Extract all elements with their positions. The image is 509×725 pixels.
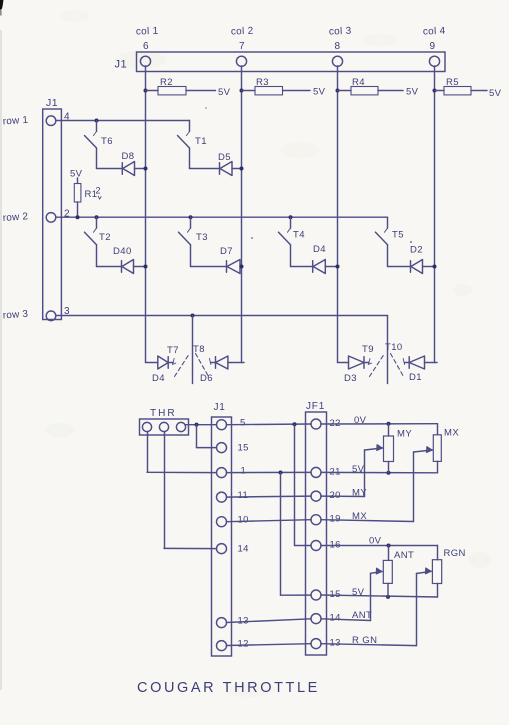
svg-text:col 1: col 1 [136, 26, 159, 38]
svg-text:row 2: row 2 [2, 211, 28, 224]
svg-text:T8: T8 [193, 344, 205, 355]
svg-text:R5: R5 [446, 77, 459, 88]
svg-text:col 4: col 4 [423, 26, 446, 38]
svg-text:8: 8 [335, 41, 341, 52]
svg-text:R2: R2 [160, 77, 173, 88]
svg-text:MY: MY [397, 429, 412, 440]
svg-text:MX: MX [444, 428, 459, 439]
svg-text:J1: J1 [46, 97, 58, 109]
svg-text:14: 14 [238, 544, 249, 555]
svg-text:JF1: JF1 [306, 401, 325, 412]
svg-text:5V: 5V [352, 464, 365, 475]
svg-text:9: 9 [430, 41, 436, 52]
svg-text:T2: T2 [99, 232, 111, 243]
svg-text:5V: 5V [70, 169, 83, 180]
svg-text:RGN: RGN [444, 548, 466, 559]
svg-text:D8: D8 [122, 151, 135, 162]
svg-text:D4: D4 [313, 244, 326, 255]
svg-text:T5: T5 [392, 230, 404, 241]
svg-text:T4: T4 [293, 230, 305, 241]
svg-text:row 3: row 3 [2, 309, 28, 322]
svg-text:ANT: ANT [394, 550, 414, 561]
svg-text:7: 7 [239, 41, 245, 52]
svg-text:T1: T1 [195, 136, 207, 147]
svg-text:T9: T9 [362, 344, 374, 355]
svg-text:5V: 5V [406, 87, 419, 98]
svg-text:5V: 5V [218, 87, 231, 98]
svg-text:D1: D1 [409, 372, 422, 383]
svg-text:D40: D40 [113, 246, 132, 257]
svg-text:row 1: row 1 [2, 115, 28, 128]
svg-text:D6: D6 [200, 373, 213, 384]
svg-text:D7: D7 [220, 246, 233, 257]
svg-text:col 2: col 2 [231, 26, 254, 38]
svg-text:6: 6 [143, 41, 149, 52]
svg-text:R4: R4 [352, 77, 365, 88]
svg-text:11: 11 [238, 490, 249, 501]
svg-text:2: 2 [96, 186, 101, 196]
svg-text:T3: T3 [196, 232, 208, 243]
svg-text:5V: 5V [313, 87, 326, 98]
svg-text:10: 10 [238, 515, 249, 526]
svg-text:15: 15 [238, 443, 249, 454]
svg-text:14: 14 [330, 613, 341, 624]
svg-text:col 3: col 3 [329, 26, 352, 38]
svg-text:D2: D2 [410, 245, 423, 256]
svg-text:R3: R3 [256, 77, 269, 88]
svg-text:12: 12 [238, 639, 249, 650]
svg-text:T10: T10 [385, 342, 403, 353]
svg-text:1: 1 [241, 466, 247, 477]
svg-text:D4: D4 [152, 373, 165, 384]
svg-text:T6: T6 [101, 136, 113, 147]
svg-text:5V: 5V [489, 88, 502, 99]
svg-text:J1: J1 [214, 402, 226, 413]
svg-text:T7: T7 [167, 345, 179, 356]
svg-text:D3: D3 [344, 373, 357, 384]
svg-text:COUGAR THROTTLE: COUGAR THROTTLE [137, 680, 320, 696]
svg-text:5: 5 [240, 418, 246, 429]
svg-text:13: 13 [330, 638, 341, 649]
svg-text:THR: THR [150, 408, 177, 419]
svg-text:J1: J1 [115, 59, 128, 71]
svg-text:D5: D5 [218, 152, 231, 163]
